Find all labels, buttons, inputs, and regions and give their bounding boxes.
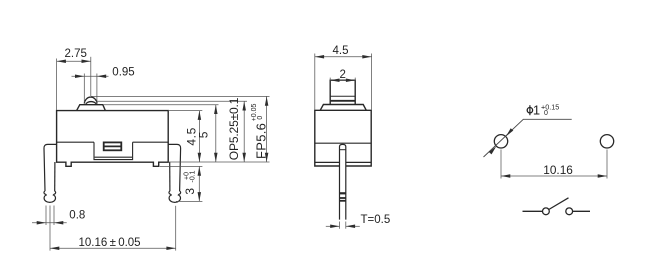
svg-text:0: 0	[544, 110, 548, 117]
svg-text:10.16: 10.16	[543, 163, 573, 177]
svg-text:0.8: 0.8	[69, 209, 85, 221]
svg-text:2: 2	[340, 69, 346, 81]
svg-text:FP5.6: FP5.6	[253, 123, 268, 159]
svg-text:OP5.25±0.1: OP5.25±0.1	[227, 97, 241, 160]
svg-text:5: 5	[196, 131, 210, 138]
svg-text:1: 1	[533, 103, 540, 118]
svg-text:T=0.5: T=0.5	[361, 214, 391, 226]
svg-text:4.5: 4.5	[333, 45, 349, 57]
svg-text:-0.1: -0.1	[190, 170, 197, 182]
svg-text:2.75: 2.75	[65, 48, 87, 60]
svg-text:3: 3	[183, 188, 197, 195]
svg-text:10.16 ± 0.05: 10.16 ± 0.05	[79, 237, 141, 249]
svg-text:0: 0	[257, 116, 264, 120]
svg-text:0.95: 0.95	[112, 67, 134, 79]
